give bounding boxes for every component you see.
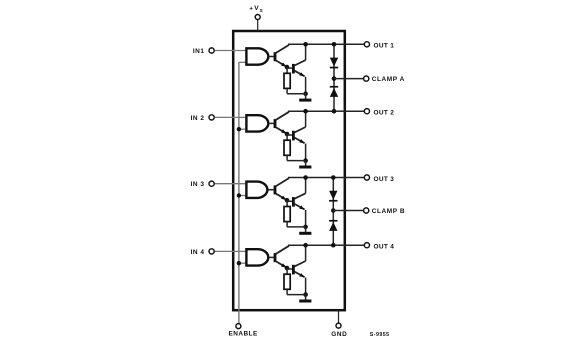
svg-text:OUT 4: OUT 4	[374, 244, 395, 251]
svg-text:CLAMP B: CLAMP B	[372, 208, 405, 215]
svg-text:OUT 3: OUT 3	[374, 176, 395, 183]
svg-text:IN1: IN1	[193, 48, 205, 55]
svg-text:GND: GND	[331, 331, 347, 338]
svg-text:CLAMP A: CLAMP A	[372, 76, 405, 83]
svg-text:ENABLE: ENABLE	[229, 331, 259, 338]
svg-text:OUT 1: OUT 1	[374, 43, 395, 50]
svg-text:+: +	[249, 7, 253, 13]
svg-text:IN 3: IN 3	[191, 181, 205, 188]
svg-text:IN 2: IN 2	[191, 115, 205, 122]
svg-text:S: S	[260, 8, 263, 13]
svg-text:IN 4: IN 4	[191, 249, 205, 256]
svg-text:OUT 2: OUT 2	[374, 110, 395, 117]
svg-text:S-9955: S-9955	[370, 332, 390, 338]
svg-text:V: V	[254, 5, 259, 12]
